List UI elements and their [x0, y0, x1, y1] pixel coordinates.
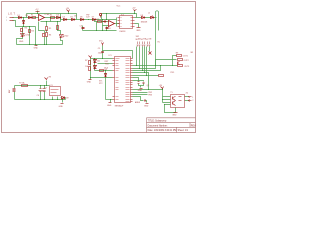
wire header pin drops staircase [137, 47, 147, 76]
svg-text:AREF: AREF [135, 101, 141, 104]
svg-text:LED1: LED1 [26, 34, 31, 36]
svg-text:D5: D5 [70, 17, 72, 19]
svg-text:Sheet: 1/1: Sheet: 1/1 [178, 129, 189, 132]
svg-text:R3: R3 [25, 28, 27, 30]
wire relay box left pin stubs [163, 97, 171, 103]
cap C top input [103, 21, 107, 23]
wire xtal feed 2 [133, 81, 144, 82]
dcdc converter box [50, 87, 61, 96]
wire mid chain y19.6 [61, 19, 117, 21]
svg-text:SV1: SV1 [136, 36, 140, 38]
svg-text:1N4148: 1N4148 [141, 21, 148, 23]
diode D7 [93, 19, 96, 21]
node junction dots [23, 17, 24, 18]
wire supply stub x135 [134, 11, 136, 14]
relay driver box T1 [171, 95, 185, 108]
aref cap [145, 100, 146, 102]
svg-text:MEGA8-P: MEGA8-P [115, 104, 124, 107]
supply symbol circle x101 [100, 16, 102, 18]
wire relay supply stem [162, 89, 164, 90]
svg-text:REV:: REV: [191, 125, 197, 127]
wire gnd stub x36 [36, 45, 38, 46]
svg-text:LED2: LED2 [64, 36, 69, 38]
svg-text:1: 1 [192, 97, 193, 99]
supply bars x37.5 [36, 11, 40, 13]
svg-text:X2: X2 [186, 93, 188, 95]
supply vcc x46 psu [45, 78, 48, 80]
wire y63.3 to mcu [98, 63, 113, 65]
supply vcc x135 [134, 10, 137, 11]
svg-text:D4: D4 [62, 17, 64, 19]
diode D6 [81, 19, 84, 21]
mcu inner pin name columns [116, 59, 130, 102]
wire opamp1 out chain [45, 18, 61, 20]
label header pin names [136, 38, 152, 40]
diode D2 [29, 17, 32, 19]
svg-text:R7: R7 [85, 60, 87, 62]
svg-text:R5: R5 [49, 28, 51, 30]
wire x107 cap branch [106, 27, 108, 31]
xtal cap C1 [138, 82, 140, 84]
wire relay gnd stub [175, 107, 177, 113]
svg-text:Q1: Q1 [147, 85, 150, 87]
wire opamp2 top input [95, 20, 109, 22]
svg-text:R6: R6 [49, 35, 51, 37]
LED2 [60, 35, 65, 38]
wire reset vertical x90 [90, 59, 92, 78]
svg-text:PB3: PB3 [148, 95, 152, 97]
wire xtal gnd stub [140, 86, 142, 88]
ic2 right pin stubs [133, 18, 135, 27]
diode D psu out [62, 97, 65, 100]
wire vertical branch x29.5 to gnd rail [29, 27, 31, 45]
op-amp U1B [109, 21, 115, 27]
transistor mark mid [178, 62, 180, 65]
ic2 left pin stubs [118, 18, 120, 27]
svg-text:C4: C4 [108, 28, 110, 30]
wire gnd stub x90 [90, 78, 92, 80]
resistor row E aux [159, 75, 164, 77]
wire vcc col x102.5 above mcu [102, 46, 104, 59]
ground sym x110 [109, 102, 112, 104]
svg-text:+12: +12 [35, 9, 38, 11]
wire psu cap branch x44 [44, 86, 46, 100]
antenna feed mark [151, 16, 154, 18]
cap C psu1 [39, 89, 43, 92]
battery B1 bars [13, 89, 16, 92]
wire psu vcc stub x46 [46, 81, 48, 86]
resistor R11 row3 motor [178, 65, 183, 67]
svg-text:C7: C7 [45, 87, 47, 89]
wire ground rail y44 [17, 44, 63, 46]
svg-text:L1: L1 [148, 13, 150, 15]
wire xtal feed 1 [133, 78, 139, 82]
wire rail y30.5 below opamp2 [83, 30, 117, 32]
cap C x83 [82, 28, 85, 29]
resistor R9 row1 motor [177, 55, 182, 57]
wire x83 cap branch [82, 26, 84, 31]
wire row A long horizontal y65.7 [133, 65, 178, 67]
svg-text:IC1A: IC1A [45, 13, 50, 16]
wire relay feed y89.7 [133, 89, 163, 91]
wire y50 over mcu to pin row1 [103, 51, 133, 59]
diode D8 [142, 17, 145, 19]
svg-text:Date: 1/31/2009 3:40:21 PM: Date: 1/31/2009 3:40:21 PM [148, 129, 177, 132]
svg-text:GND: GND [144, 106, 149, 108]
wire input pin2 down and along y26 [13, 21, 36, 27]
wire vertical x107 railB to chain [106, 14, 108, 20]
svg-text:GND: GND [172, 114, 177, 116]
connector X1 pin1 [10, 17, 14, 19]
wire psu gnd stub x62 [62, 100, 64, 103]
svg-text:PD0: PD0 [105, 64, 109, 66]
wire reset rail y58.5 [91, 58, 113, 60]
resistor R2 top input [98, 21, 102, 23]
wire row B y68.1 [133, 60, 177, 69]
resistor R4 x29.5 [29, 30, 31, 33]
diode D5 [72, 19, 75, 21]
header pins HDR [138, 42, 150, 45]
wire row C y70.5 [133, 66, 161, 71]
wire mcu bottom left pin y99.3 [106, 99, 113, 101]
svg-text:D9: D9 [66, 98, 68, 100]
svg-text:10k: 10k [85, 66, 88, 68]
wire relay emitter to gnd run [165, 105, 176, 113]
wire y70.8 to mcu [95, 70, 113, 72]
resistor R10 row2 motor [178, 59, 183, 61]
svg-text:1: 1 [6, 17, 7, 19]
svg-text:M1: M1 [191, 52, 194, 54]
diode D reset x95 [94, 60, 97, 63]
wire nc drop [149, 47, 151, 52]
ground sym aref [146, 103, 149, 105]
wire relay out pins [185, 97, 189, 101]
cap C x107 [106, 28, 109, 29]
diode D4 [64, 19, 67, 21]
wire row1 feed from x172 [173, 56, 177, 66]
wire supply stub x37.5 [37, 11, 39, 14]
wire vertical zener branch [23, 18, 25, 27]
wire input pin1 to diode chain [13, 17, 39, 19]
title block outline [147, 118, 196, 133]
xtal cap C2 [143, 83, 145, 84]
resistor R5a x47 upper [46, 27, 48, 31]
svg-text:GND: GND [34, 47, 39, 49]
zener diode vertical [23, 21, 25, 24]
svg-text:D2: D2 [26, 15, 28, 17]
svg-text:Ex: Ex [158, 42, 160, 44]
wire x97 branch [96, 22, 98, 31]
resistor R6 x44 [43, 34, 45, 37]
fuse F2 psu [22, 85, 28, 87]
resistor R7b x90 lower [89, 67, 91, 71]
diode on x105.5 [105, 74, 107, 77]
svg-text:D3: D3 [56, 15, 58, 17]
wire divider x44 [44, 31, 46, 45]
supply vcc x90 reset [89, 56, 92, 59]
svg-text:GND: GND [19, 41, 24, 43]
diode D3 [57, 17, 61, 19]
relay inner marks [173, 97, 182, 106]
wire label rows right of mcu [133, 93, 148, 95]
connector X2 pin2 [189, 100, 192, 102]
wire psu top rail [15, 85, 50, 87]
svg-text:T1: T1 [170, 92, 172, 94]
ground sym x62 [61, 103, 64, 105]
svg-text:IC3: IC3 [50, 85, 53, 87]
svg-text:GND: GND [59, 106, 64, 108]
svg-text:OUT1: OUT1 [183, 56, 188, 58]
wire row E y75.3 [133, 75, 159, 77]
resistor R3 led1 [21, 29, 23, 32]
wire dcdc pins down [53, 97, 58, 100]
svg-text:GND: GND [87, 82, 92, 84]
wire led2 column [58, 22, 63, 45]
wire feedback vertical x60 [60, 14, 62, 22]
wire opamp2 bottom input [103, 20, 109, 26]
frame border [2, 2, 196, 133]
svg-text:IC2: IC2 [121, 14, 124, 16]
diode D9 [151, 17, 154, 19]
wire supply stub x68 [68, 12, 70, 14]
resistor R1 feedback [51, 17, 55, 19]
svg-text:R9: R9 [176, 53, 178, 55]
LED1 [21, 34, 26, 37]
wire feedback vertical x50.5 [50, 18, 52, 22]
mcu left pin stubs [113, 59, 115, 100]
wire vertical branch x35.5 to gnd rail [35, 27, 37, 45]
svg-text:GND: GND [107, 105, 112, 107]
svg-text:TITLE: Solarpump: TITLE: Solarpump [148, 120, 167, 123]
svg-text:100n: 100n [98, 52, 102, 54]
wire rail B with corner down [102, 14, 137, 20]
dcdc inner text marks [51, 90, 59, 93]
ic2 inner pin marks [121, 18, 133, 27]
svg-text:VCC: VCC [99, 41, 104, 43]
connector X1 pin2 [10, 20, 14, 22]
mcu IC1 box [115, 57, 131, 103]
svg-text:XT2: XT2 [99, 83, 102, 85]
svg-text:C3: C3 [80, 25, 82, 27]
resistor R8 y70.8 [100, 70, 104, 72]
wire long vertical x155.5 down [155, 18, 157, 66]
svg-text:D7: D7 [92, 17, 94, 19]
ground sym xtal [140, 88, 143, 90]
svg-text:2: 2 [6, 20, 7, 22]
wire aref net [133, 97, 144, 101]
supply vcc x68 [67, 10, 70, 12]
ground sym relay [174, 112, 178, 114]
cap C psu2 [43, 89, 46, 92]
svg-text:2: 2 [192, 100, 193, 102]
svg-text:F2 5A: F2 5A [19, 82, 25, 85]
wire relay rail x162 [162, 90, 164, 103]
svg-text:PD5: PD5 [171, 72, 175, 74]
wire xtal bottoms [139, 84, 144, 86]
wire diode psu stubs [61, 98, 66, 100]
wire opamp2 output [115, 23, 117, 25]
svg-text:GND: GND [138, 90, 143, 92]
svg-text:L.G. T.: L.G. T. [8, 13, 16, 16]
diode D reset x95 lower [94, 66, 97, 69]
svg-text:D6: D6 [80, 17, 82, 19]
wire divider x47 [46, 22, 48, 45]
svg-text:Document Number:: Document Number: [148, 124, 168, 127]
ground ic2 [137, 27, 141, 29]
svg-text:C5: C5 [98, 48, 100, 50]
ic2 opamp package box [120, 16, 133, 29]
svg-text:D8: D8 [141, 15, 143, 17]
svg-text:D1: D1 [17, 15, 19, 17]
svg-text:IC1: IC1 [109, 55, 112, 57]
resistor led2 x57.5 [57, 26, 59, 30]
wire y77.7 to mcu [91, 77, 113, 79]
svg-text:R1: R1 [50, 15, 52, 17]
wire psu cap branch x40.5 [40, 86, 42, 100]
resistor R5b x47 lower [46, 33, 48, 37]
svg-text:OUT3: OUT3 [184, 66, 189, 68]
wire ic2 left pin bus [116, 18, 118, 27]
wire top rail A [27, 14, 77, 20]
wire row D y72.9 [133, 73, 149, 90]
wire ic2 gnd drop [138, 24, 140, 28]
svg-text:R8: R8 [104, 69, 106, 71]
diode D1 [19, 17, 22, 19]
svg-text:10k: 10k [97, 60, 100, 62]
wire x105.5 long vertical [105, 71, 107, 100]
svg-text:GND: GND [136, 30, 141, 32]
ground sym x90 [89, 79, 92, 81]
wire opamp1 lower rail [41, 21, 61, 23]
svg-text:F1: F1 [31, 15, 33, 17]
wire antenna loop [156, 11, 159, 31]
resistor R7 reset x90 [89, 61, 91, 65]
wire diode out to loop [145, 17, 157, 19]
svg-text:LM358: LM358 [120, 31, 126, 33]
supply vcc relay [161, 87, 164, 89]
wire reset vertical x95 [94, 59, 96, 71]
wire led1 branch x22 [17, 27, 23, 45]
svg-text:R4: R4 [31, 31, 33, 33]
wire ic2 connect wires [117, 18, 142, 24]
wire gnd stub x110 [110, 100, 112, 103]
nc cross [149, 52, 152, 55]
svg-text:OUT2: OUT2 [184, 60, 189, 62]
wire aref cap gnd stub [146, 101, 147, 103]
wire psu bottom rail [15, 99, 66, 101]
capacitor C5 bars [101, 52, 104, 53]
op-amp U1A [39, 15, 45, 21]
mcu right pin stubs [131, 59, 133, 102]
supply vcc x102.5 above mcu [102, 43, 104, 46]
ground rail sym x36 [35, 45, 38, 47]
svg-text:C6: C6 [37, 95, 39, 97]
wire psu battery stubs [14, 86, 16, 100]
fuse F1 [33, 17, 36, 19]
wire divider U x38.5 [39, 22, 45, 31]
wire x102 branch low [102, 26, 104, 31]
connector X2 pin1 [189, 97, 192, 98]
svg-text:R2: R2 [97, 19, 99, 21]
